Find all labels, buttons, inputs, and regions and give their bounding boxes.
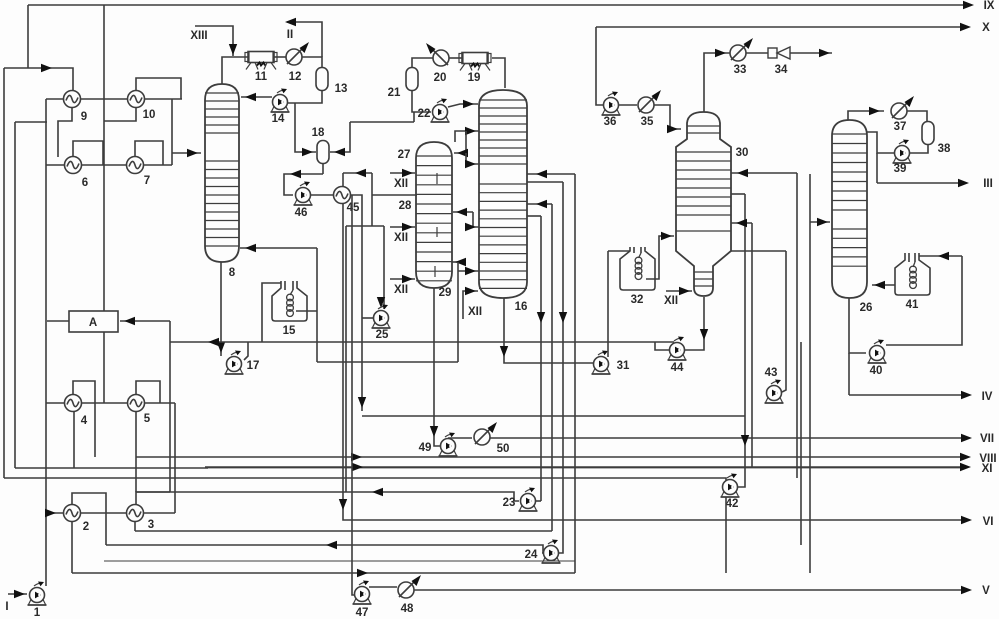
wire v575 (574, 174, 576, 573)
wire v317 (316, 248, 318, 362)
wire hx10 bottom jog (104, 107, 136, 121)
wire 41 return (872, 284, 895, 286)
svg-text:36: 36 (604, 116, 617, 128)
wire col8 bottoms (220, 262, 222, 356)
wire 49-50 (448, 437, 472, 439)
wire 47-48 (369, 586, 397, 588)
wire v552 (551, 204, 553, 531)
heat exchanger 4 (65, 395, 82, 412)
wire stream IV (849, 394, 963, 396)
wire 18 top jog (350, 121, 414, 123)
wire col30 stub 194 (731, 193, 745, 195)
wire XII col30 (666, 290, 692, 292)
svg-text:29: 29 (439, 287, 452, 299)
wire feed I (8, 593, 27, 595)
wire h545 (106, 545, 543, 553)
wire 21-22 (412, 90, 431, 112)
svg-text:38: 38 (938, 143, 951, 155)
column 16 (479, 90, 527, 298)
condenser 19 (462, 53, 488, 64)
flash drum 18 (317, 141, 329, 164)
wire 18 top jog riser (413, 112, 415, 122)
svg-text:5: 5 (144, 413, 151, 425)
svg-text:44: 44 (671, 362, 684, 374)
wire v962 (886, 256, 962, 345)
accumulator 13 (316, 68, 328, 91)
wire 33-34 (746, 52, 768, 54)
air cooler 12 (286, 49, 302, 65)
svg-text:9: 9 (81, 111, 87, 123)
wire hx4 staple (73, 381, 95, 457)
heat exchanger 10 (128, 91, 145, 108)
air cooler 48 (398, 582, 414, 598)
svg-text:15: 15 (283, 325, 296, 337)
wire 18 split left (284, 174, 323, 195)
svg-text:11: 11 (255, 71, 268, 83)
wire XIII inject (195, 26, 233, 56)
svg-text:2: 2 (83, 521, 89, 533)
wire 32 return (646, 236, 674, 279)
wire hx7 staple (135, 141, 163, 165)
wire XII feed a (390, 172, 415, 174)
svg-text:12: 12 (289, 71, 302, 83)
wire stream XI (15, 467, 208, 469)
pump 31 (594, 357, 609, 372)
wire 36-35 (619, 104, 637, 106)
wire 11-12 (273, 56, 286, 58)
svg-text:33: 33 (734, 64, 747, 76)
column 29 internal steps (435, 173, 437, 277)
wire 22 reflux (448, 104, 478, 107)
wire col30 stub 223 (731, 222, 752, 224)
svg-text:26: 26 (860, 302, 873, 314)
svg-text:14: 14 (272, 113, 285, 125)
svg-text:39: 39 (894, 163, 907, 175)
wire 21 top (412, 58, 433, 68)
wire col16 stub 204 (527, 203, 552, 205)
wire col8 feed arrow (172, 152, 201, 154)
wire A feed (120, 320, 170, 322)
wire 18 feed right (330, 122, 350, 152)
pump 39 (895, 146, 910, 161)
svg-text:46: 46 (295, 207, 308, 219)
furnace 32 (620, 247, 655, 290)
wire hx9 to hx4 row (103, 5, 105, 403)
svg-text:27: 27 (398, 149, 411, 161)
svg-text:16: 16 (515, 301, 528, 313)
wire ladder 16-29 f (452, 261, 458, 263)
wire col16 overhead (492, 58, 505, 88)
column 30 (676, 112, 731, 296)
heat exchanger 3 (127, 505, 144, 522)
svg-text:43: 43 (765, 367, 778, 379)
wire hx row4 (46, 512, 175, 514)
wire col30 stub right (731, 172, 797, 174)
wire 13-14 (288, 90, 322, 103)
wire 15 left stub (262, 283, 281, 342)
svg-text:XII: XII (394, 284, 408, 296)
wire hx row1 feed (4, 68, 73, 91)
wire hx3 staple top (136, 492, 170, 505)
wire 17 discharge (244, 342, 248, 360)
wire col29 bottoms (434, 288, 440, 446)
wire 42 down (725, 497, 727, 573)
column 29 (416, 142, 452, 288)
wire 39 reflux (867, 132, 894, 153)
wire hx row3 (46, 402, 175, 404)
wire v752 (751, 223, 753, 467)
svg-text:22: 22 (418, 108, 431, 120)
svg-text:IV: IV (982, 391, 993, 403)
wire ladder 29-16 a (455, 131, 479, 142)
wire hx9 staple bottom (58, 107, 72, 157)
svg-text:30: 30 (736, 147, 749, 159)
wire col30 overhead (704, 53, 730, 112)
column 26 (832, 120, 867, 298)
wire pump1 discharge (45, 99, 47, 586)
svg-text:35: 35 (641, 116, 654, 128)
wire v801 (800, 342, 802, 545)
svg-text:VI: VI (983, 516, 994, 528)
wire stream X (596, 26, 963, 28)
wire h416 (362, 415, 745, 417)
valve 34 (768, 48, 777, 58)
svg-text:XIII: XIII (190, 30, 207, 42)
column 8 (205, 84, 239, 262)
wire 34 out (790, 52, 832, 54)
wire 44 discharge (655, 342, 669, 350)
wire X riser (596, 27, 603, 105)
wire left loop b (14, 122, 16, 468)
svg-text:48: 48 (401, 603, 414, 615)
wire col26 overhead (848, 111, 884, 120)
wire XII feed c (390, 278, 415, 280)
pump 43 (767, 386, 782, 401)
heat exchanger 45 (334, 187, 351, 204)
wire v175 (174, 403, 176, 513)
pump 46 (296, 188, 311, 203)
svg-text:17: 17 (247, 360, 260, 372)
wire 18 feed left (295, 103, 316, 152)
wire 45 to col29 (372, 194, 417, 196)
wire hx row2 (46, 164, 172, 166)
wire A left (47, 320, 69, 322)
svg-text:XII: XII (468, 306, 482, 318)
wire 15 coil out (296, 310, 317, 312)
pump 14 (273, 95, 288, 110)
svg-text:XII: XII (394, 232, 408, 244)
svg-text:34: 34 (775, 64, 788, 76)
svg-text:V: V (982, 585, 990, 597)
wire v458 riser (457, 262, 459, 362)
wire 18 bottoms (322, 163, 324, 174)
wire left jog (15, 121, 47, 123)
wire 31 discharge (607, 251, 609, 357)
svg-text:23: 23 (503, 497, 516, 509)
wire hx10 staple top (136, 78, 181, 99)
wire 45 riser (342, 173, 344, 186)
svg-text:II: II (287, 29, 293, 41)
svg-text:31: 31 (617, 360, 630, 372)
wire v797 (796, 173, 798, 478)
wire h226 (346, 225, 384, 227)
wire 20-19 (449, 57, 462, 59)
wire left loop c (4, 478, 726, 482)
wire h561 faint (104, 560, 575, 562)
svg-text:6: 6 (82, 177, 88, 189)
svg-text:20: 20 (434, 72, 447, 84)
svg-text:13: 13 (335, 83, 348, 95)
wire ladder 16-29 b (454, 131, 466, 153)
wire v343 down (342, 204, 344, 519)
wire hx row1 (46, 98, 182, 100)
wire v810 (809, 174, 811, 573)
wire XII feed b (390, 226, 415, 228)
heat exchanger 9 (64, 91, 81, 108)
svg-text:8: 8 (229, 267, 236, 279)
heat exchanger 2 (64, 505, 81, 522)
pump 47 (355, 587, 370, 602)
wire 45 out drop (351, 195, 362, 411)
svg-text:19: 19 (468, 72, 481, 84)
pump 23 (521, 494, 536, 509)
svg-text:4: 4 (81, 415, 88, 427)
wire h173 (343, 172, 372, 174)
svg-text:VII: VII (980, 433, 994, 445)
wire III drop (876, 153, 878, 183)
wire col16 bottoms (504, 298, 593, 363)
pump 40 (870, 346, 885, 361)
pump 17 (227, 357, 242, 372)
air cooler 50 (474, 429, 490, 445)
air cooler 20 (433, 50, 449, 66)
wire pump25 suction (383, 226, 385, 309)
wire h342 (170, 341, 674, 343)
wire h531 (135, 530, 552, 532)
air cooler 35 (638, 97, 654, 113)
wire col8 overhead (222, 57, 250, 84)
wire 46-45 (311, 194, 333, 196)
wire col16 stub 216 (527, 215, 541, 217)
wire 12-13 (302, 57, 322, 67)
wire col16 stub 174 (527, 173, 575, 175)
wire XII col16 (463, 291, 478, 319)
wire col26 bottoms (849, 298, 866, 353)
wire v745 (738, 194, 745, 487)
wire reflux 14-col8 (241, 96, 272, 98)
wire 35-col30 (654, 105, 681, 129)
wire v352 to pump47 (352, 195, 356, 595)
box A (69, 311, 118, 332)
wire col30 bottoms (685, 297, 704, 350)
wire 23 out (536, 500, 541, 502)
svg-text:XII: XII (664, 295, 678, 307)
air cooler 37 (891, 103, 907, 119)
wire 37-38 (907, 111, 927, 121)
wire hx5 staple (136, 381, 160, 403)
wire 32 feed (608, 250, 630, 252)
wire stream III (877, 182, 960, 184)
svg-text:3: 3 (148, 519, 154, 531)
wire hx6 staple (73, 141, 103, 165)
svg-text:25: 25 (376, 329, 389, 341)
svg-text:45: 45 (347, 202, 360, 214)
pump 22 (433, 105, 448, 120)
wire col30 side stub (731, 250, 786, 252)
wire stream VII (490, 437, 963, 439)
svg-text:50: 50 (497, 443, 510, 455)
wire IV drop (848, 353, 850, 395)
pump 1 (30, 588, 45, 603)
wire hx2 staple top (72, 493, 106, 545)
svg-text:1: 1 (34, 607, 41, 619)
wire XI overlay (205, 466, 963, 468)
accumulator 21 (406, 68, 418, 91)
pump 49 (441, 439, 456, 454)
wire ladder 29-16 c (466, 153, 479, 164)
wire v346 (345, 226, 347, 492)
wire ladder 29-16 g (458, 270, 479, 272)
svg-text:7: 7 (144, 175, 150, 187)
svg-text:42: 42 (726, 498, 739, 510)
wire hx4 drop (73, 411, 75, 468)
heat exchanger 6 (65, 157, 82, 174)
heat exchanger 7 (127, 157, 144, 174)
svg-text:III: III (983, 178, 993, 190)
svg-text:41: 41 (906, 299, 919, 311)
wire v563 (559, 182, 563, 553)
wire 43 suction (782, 251, 786, 392)
heat exchanger 5 (128, 395, 145, 412)
wire h362 (317, 361, 458, 363)
svg-text:XII: XII (394, 178, 408, 190)
wire h573 (72, 572, 575, 574)
condenser 11 (248, 52, 274, 63)
wire 38-39 (910, 145, 928, 153)
furnace 15 (272, 281, 307, 321)
svg-text:X: X (982, 22, 990, 34)
furnace 41 (895, 253, 930, 295)
pump 42 (723, 480, 738, 495)
wire stream V (414, 589, 963, 591)
wire col26 feed (810, 221, 830, 223)
svg-text:IX: IX (984, 0, 995, 12)
wire v541 (540, 216, 542, 501)
wire v372 (371, 173, 373, 226)
wire II offgas (287, 22, 322, 57)
svg-text:18: 18 (312, 127, 325, 139)
wire col8 feed (171, 99, 173, 165)
wire col8 return (240, 247, 317, 249)
svg-text:21: 21 (388, 87, 401, 99)
wire col16 stub 182 (527, 181, 563, 183)
wire IX riser (27, 5, 29, 68)
wire hx5 drop (135, 411, 137, 492)
wire h492 (136, 492, 519, 501)
pump 44 (670, 343, 685, 358)
wire left loop a (3, 68, 5, 478)
wire stream VI (343, 519, 963, 520)
wire stream IX (28, 4, 968, 6)
svg-text:24: 24 (525, 549, 538, 561)
wire ladder 16-29 d (453, 211, 473, 213)
svg-text:A: A (89, 317, 97, 329)
wire ladder 29-16 e (473, 212, 479, 227)
wire stream VIII (136, 456, 963, 458)
wire 25 discharge (362, 317, 373, 319)
svg-text:28: 28 (399, 200, 412, 212)
svg-text:10: 10 (143, 109, 156, 121)
wire v170 (169, 321, 171, 492)
svg-text:I: I (5, 601, 8, 613)
svg-text:49: 49 (419, 442, 432, 454)
air cooler 33 (730, 45, 746, 61)
pump 36 (604, 98, 619, 113)
svg-text:32: 32 (631, 294, 644, 306)
svg-text:37: 37 (894, 121, 907, 133)
pump 24 (544, 546, 559, 561)
wire hx2 bottom (71, 521, 73, 573)
wire 41 feed (919, 255, 962, 257)
pump 25 (374, 311, 389, 326)
accumulator 38 (922, 122, 934, 145)
wire hx3 bottom (134, 521, 136, 531)
svg-text:XI: XI (982, 463, 993, 475)
svg-text:40: 40 (870, 365, 883, 377)
svg-text:47: 47 (356, 607, 369, 619)
